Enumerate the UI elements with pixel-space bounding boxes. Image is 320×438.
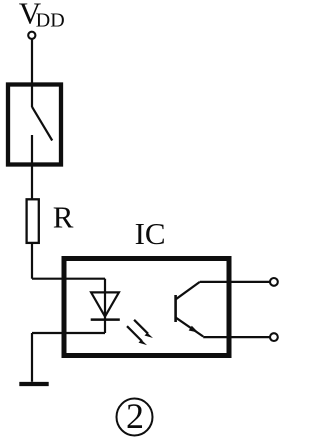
wire VDD to switch box [31,39,33,84]
terminal VDD [28,32,35,39]
wire resistor to node A [31,243,33,279]
switch box S1 [8,85,61,165]
output terminal emitter [270,333,278,341]
wire collector to terminal [200,281,270,283]
optocoupler package IC [64,259,229,356]
wire LED cathode to ground branch [32,332,105,334]
output terminal collector [270,278,278,286]
light arrow 1 [134,320,153,338]
svg-text:IC: IC [135,216,166,251]
svg-text:2: 2 [126,396,144,436]
switch fixed contact [31,86,33,107]
figure number circle [117,399,153,436]
LED D1 cathode bar [91,318,120,321]
light arrow 2 [127,326,147,345]
resistor R [27,199,39,243]
ground [19,382,48,386]
svg-text:DD: DD [36,10,65,32]
wire switch to resistor [31,135,33,199]
LED D1 vertical lead [104,279,106,333]
phototransistor Q1 base bar [174,295,177,322]
wire down to ground [31,333,33,382]
phototransistor emitter lead [176,318,203,337]
switch blade [32,107,52,141]
net label VDD [19,0,65,32]
emitter arrowhead [189,326,199,333]
wire emitter to terminal [203,336,270,338]
wire node A to LED anode [32,278,105,280]
phototransistor collector lead [176,282,200,299]
LED D1 triangle [91,292,119,316]
svg-text:R: R [53,200,74,235]
